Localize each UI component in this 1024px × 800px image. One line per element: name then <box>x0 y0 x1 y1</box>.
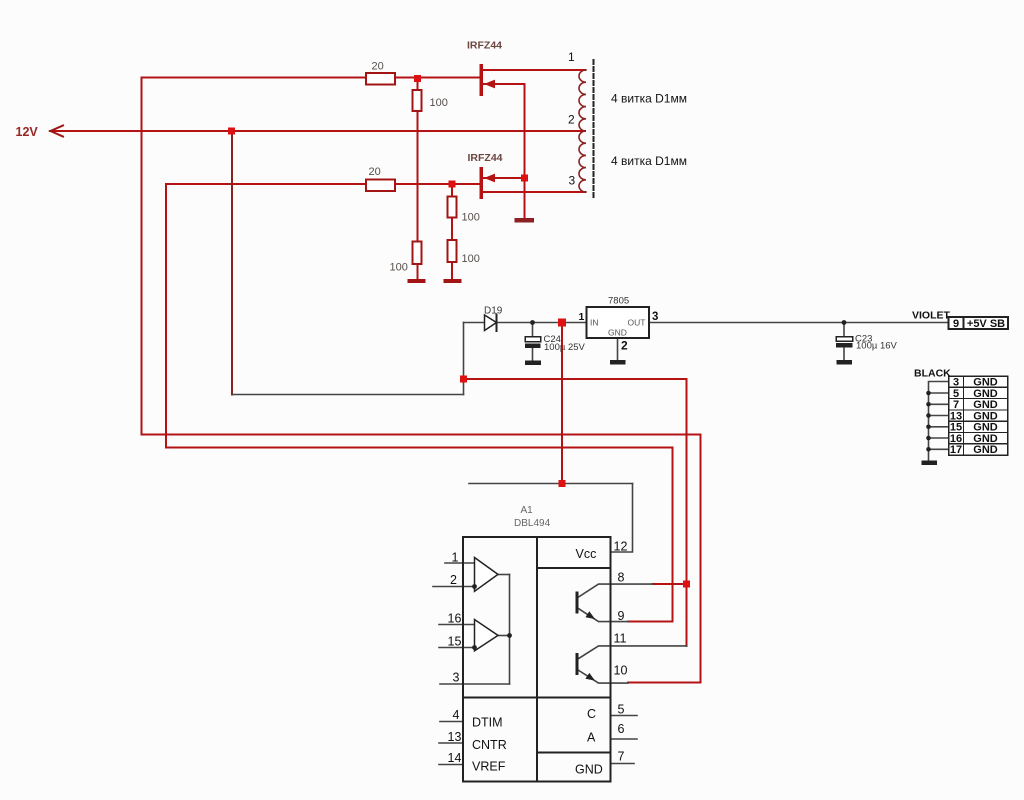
svg-text:16: 16 <box>448 612 462 626</box>
svg-text:D19: D19 <box>484 306 503 317</box>
svg-text:100: 100 <box>430 97 448 109</box>
svg-text:DBL494: DBL494 <box>514 518 551 529</box>
svg-text:14: 14 <box>448 751 462 765</box>
svg-text:CNTR: CNTR <box>472 738 507 752</box>
svg-text:VIOLET: VIOLET <box>912 310 951 322</box>
svg-text:9: 9 <box>618 609 625 623</box>
svg-text:4: 4 <box>453 708 460 722</box>
svg-text:+5V SB: +5V SB <box>967 318 1005 330</box>
svg-text:7: 7 <box>618 750 625 764</box>
svg-text:9: 9 <box>953 318 959 330</box>
svg-text:20: 20 <box>372 61 384 73</box>
svg-text:3: 3 <box>652 311 658 323</box>
svg-text:1: 1 <box>452 551 459 565</box>
svg-text:100: 100 <box>390 262 408 274</box>
svg-text:A1: A1 <box>521 505 534 516</box>
svg-text:13: 13 <box>950 411 962 423</box>
svg-text:1: 1 <box>579 311 585 323</box>
svg-text:15: 15 <box>950 422 962 434</box>
svg-text:20: 20 <box>369 166 381 178</box>
svg-text:1: 1 <box>568 50 575 64</box>
svg-text:VREF: VREF <box>472 760 506 774</box>
svg-text:3: 3 <box>953 377 959 389</box>
svg-text:2: 2 <box>621 339 628 353</box>
svg-text:IN: IN <box>590 318 599 328</box>
svg-text:100: 100 <box>462 253 480 265</box>
svg-text:16: 16 <box>950 433 962 445</box>
svg-text:C: C <box>587 707 596 721</box>
svg-text:5: 5 <box>953 388 959 400</box>
svg-text:10: 10 <box>614 664 628 678</box>
svg-text:4 витка D1мм: 4 витка D1мм <box>611 92 687 106</box>
svg-text:13: 13 <box>448 730 462 744</box>
svg-text:8: 8 <box>618 571 625 585</box>
svg-text:GND: GND <box>575 763 603 777</box>
svg-text:GND: GND <box>973 433 998 445</box>
svg-text:100µ 16V: 100µ 16V <box>856 341 898 352</box>
svg-text:GND: GND <box>973 444 998 456</box>
svg-text:GND: GND <box>973 399 998 411</box>
svg-text:12V: 12V <box>16 125 39 139</box>
svg-text:12: 12 <box>614 540 628 554</box>
svg-text:A: A <box>587 731 596 745</box>
svg-text:100µ 25V: 100µ 25V <box>544 342 586 353</box>
svg-text:OUT: OUT <box>628 318 646 328</box>
svg-text:GND: GND <box>608 328 627 338</box>
svg-text:GND: GND <box>973 411 998 423</box>
svg-text:5: 5 <box>618 703 625 717</box>
svg-text:3: 3 <box>569 174 576 188</box>
svg-text:2: 2 <box>450 573 457 587</box>
svg-text:7: 7 <box>953 399 959 411</box>
svg-text:GND: GND <box>973 388 998 400</box>
svg-text:Vcc: Vcc <box>576 547 597 561</box>
svg-text:IRFZ44: IRFZ44 <box>467 40 502 52</box>
svg-text:100: 100 <box>462 212 480 224</box>
svg-text:6: 6 <box>618 722 625 736</box>
svg-text:7805: 7805 <box>608 296 629 307</box>
svg-text:2: 2 <box>568 113 575 127</box>
svg-text:GND: GND <box>973 422 998 434</box>
svg-text:4 витка D1мм: 4 витка D1мм <box>611 154 687 168</box>
svg-text:3: 3 <box>453 671 460 685</box>
svg-text:GND: GND <box>973 377 998 389</box>
svg-text:11: 11 <box>614 632 627 646</box>
svg-text:BLACK: BLACK <box>914 368 951 380</box>
svg-text:DTIM: DTIM <box>472 716 503 730</box>
svg-text:IRFZ44: IRFZ44 <box>468 152 503 164</box>
svg-text:17: 17 <box>950 444 962 456</box>
svg-text:15: 15 <box>448 635 462 649</box>
